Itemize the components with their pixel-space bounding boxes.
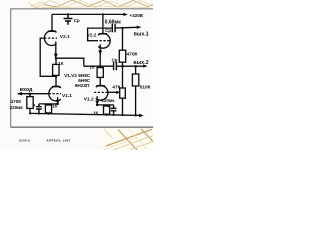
arrow cathode V1.2 bbox=[95, 101, 99, 105]
arrow bus end bbox=[139, 114, 144, 118]
tube V2.1 cathode lead bbox=[55, 42, 57, 59]
wire V2.2 anode lead bbox=[102, 14, 104, 33]
svg-text:Ср: Ср bbox=[105, 28, 111, 33]
wire +320V rail bbox=[52, 13, 124, 15]
junction bus-220mk left bbox=[38, 112, 40, 114]
wire V1.1 cathode bus bbox=[39, 103, 58, 105]
resistor 1K upper-right bbox=[97, 68, 103, 78]
decorative hatch top strip bbox=[30, 0, 153, 7]
junction bus-470K bbox=[29, 112, 31, 114]
tube V2.1 envelope bbox=[44, 31, 56, 46]
junction bus-47K bbox=[121, 114, 123, 116]
svg-text:470К: 470К bbox=[126, 51, 137, 57]
resistor R 1K upper-left bbox=[53, 64, 59, 75]
svg-text:V1.2: V1.2 bbox=[84, 97, 94, 103]
frame left+top bbox=[11, 9, 153, 127]
capacitor Cp output2 bbox=[114, 62, 117, 70]
svg-text:АПРЕЛЬ 1997: АПРЕЛЬ 1997 bbox=[47, 138, 71, 142]
svg-text:510К: 510К bbox=[140, 85, 151, 90]
wire V2.1 anode lead bbox=[51, 14, 53, 31]
junction bus-220mk right bbox=[113, 114, 115, 116]
wire output2 row bbox=[84, 65, 113, 67]
svg-text:1К: 1К bbox=[89, 64, 94, 69]
junction out2-47K bbox=[121, 65, 124, 68]
svg-text:1К: 1К bbox=[93, 111, 98, 116]
junction V2.1 cathode node bbox=[55, 57, 58, 60]
junction rail-V2.2 anode bbox=[102, 13, 104, 15]
resistor 1K cathode right bbox=[104, 106, 110, 114]
capacitor 220mk left bbox=[36, 104, 42, 114]
wire coupling stage1 out bbox=[56, 58, 84, 66]
junction bus-1K right bbox=[106, 114, 108, 116]
resistor 470K input bbox=[27, 97, 33, 109]
arrow out1 bbox=[137, 26, 142, 29]
capacitor 0,68mk bbox=[112, 24, 115, 32]
junction out2-510K bbox=[134, 65, 137, 68]
tube V2.1 grid bbox=[44, 37, 57, 39]
decorative hatch bottom-right bbox=[98, 129, 153, 150]
junction out1-470K bbox=[121, 27, 124, 30]
plus mark right cap bbox=[107, 105, 109, 107]
capacitor Cp left (filter) bbox=[64, 14, 73, 24]
tube V1.1 anode plate bbox=[52, 86, 60, 88]
frame bottom bbox=[11, 126, 153, 128]
arrow +320V bbox=[124, 13, 128, 16]
wire V2.1 grid to lower node bbox=[40, 38, 56, 76]
junction V1.2 cathode node bbox=[96, 104, 99, 107]
tube V1.2 anode plate bbox=[96, 85, 105, 87]
svg-text:Ср: Ср bbox=[74, 18, 80, 23]
svg-text:СУ50-А: СУ50-А bbox=[19, 138, 31, 142]
svg-text:0,68мк: 0,68мк bbox=[105, 20, 122, 26]
svg-text:1К: 1К bbox=[58, 61, 63, 66]
tube V1.2 envelope bbox=[96, 85, 108, 100]
svg-text:V2.2: V2.2 bbox=[87, 33, 97, 39]
tube V2.2 envelope bbox=[98, 33, 110, 48]
junction V1.1 cathode node bbox=[56, 103, 59, 106]
svg-text:47К: 47К bbox=[112, 84, 120, 89]
junction bus-1K left bbox=[47, 113, 49, 115]
junction V2.2 cathode node bbox=[99, 65, 102, 68]
plus mark left cap bbox=[33, 104, 35, 106]
tube V1.2 cathode lead bbox=[96, 96, 98, 105]
resistor 47K pot bbox=[120, 88, 126, 98]
svg-text:вых.2: вых.2 bbox=[133, 60, 148, 66]
wire V2.2 grid to out1 node bbox=[88, 28, 112, 41]
tube V1.1 grid bbox=[49, 93, 61, 95]
junction input-470K bbox=[29, 92, 32, 95]
svg-text:6Н23П: 6Н23П bbox=[75, 83, 90, 88]
wire V1.2 cathode row bbox=[97, 104, 113, 106]
arrow cathode V2.1 bbox=[54, 54, 58, 59]
tube V2.2 grid bbox=[96, 40, 110, 42]
svg-text:Ср: Ср bbox=[112, 57, 118, 62]
tube V2.2 anode plate bbox=[99, 33, 107, 35]
svg-text:220мк: 220мк bbox=[101, 98, 115, 103]
svg-text:V2.1: V2.1 bbox=[60, 34, 70, 40]
tube V2.2 cathode lead bbox=[99, 44, 101, 66]
svg-text:220мк: 220мк bbox=[10, 105, 24, 110]
tube V1.2 grid bbox=[94, 91, 108, 93]
tube V1.1 envelope bbox=[49, 86, 61, 101]
wire input bbox=[18, 93, 49, 95]
arrow cathode V2.2 bbox=[98, 50, 102, 55]
arrow input bbox=[17, 92, 22, 96]
tube V1.1 cathode lead bbox=[57, 97, 59, 104]
wire ground bus bbox=[30, 113, 139, 115]
resistor 1K cathode left bbox=[45, 105, 51, 113]
junction rail-Cp bbox=[67, 13, 69, 15]
resistor 470K right bbox=[119, 50, 125, 62]
wire pot wiper bbox=[108, 91, 117, 93]
tube V2.1 anode plate bbox=[48, 30, 56, 32]
svg-text:1К: 1К bbox=[52, 103, 57, 108]
arrow pot wiper bbox=[116, 91, 120, 95]
capacitor 220mk right bbox=[111, 105, 117, 115]
svg-text:+320В: +320В bbox=[130, 13, 144, 18]
resistor 510K bbox=[132, 74, 138, 86]
junction bus-510K bbox=[135, 114, 137, 116]
arrow cathode V1.1 bbox=[56, 100, 60, 104]
arrow out2 bbox=[143, 64, 148, 67]
page background bbox=[0, 0, 153, 150]
svg-text:V1.1: V1.1 bbox=[62, 93, 72, 99]
svg-text:вых.1: вых.1 bbox=[134, 31, 149, 37]
svg-text:470К: 470К bbox=[10, 99, 21, 104]
junction V2.1 grid / V1.1 anode node bbox=[55, 75, 58, 78]
svg-text:вход: вход bbox=[20, 87, 33, 93]
